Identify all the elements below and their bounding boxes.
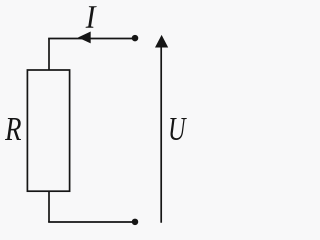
label U (voltage): [170, 118, 187, 140]
wire: top horizontal rail to positive terminal node: [48, 38, 135, 40]
wire: bottom horizontal rail to negative terminal node: [48, 221, 135, 223]
label I (current): [86, 6, 97, 28]
current arrow I (arrowhead pointing left along top rail): [78, 32, 91, 44]
node: bottom terminal dot: [132, 219, 139, 226]
wire: vertical lead from resistor R top to top rail: [48, 39, 50, 71]
wire: vertical lead from resistor R bottom to bottom rail: [48, 191, 50, 222]
resistor R (rectangular body): [27, 70, 69, 191]
voltage arrow U: arrowhead pointing up: [155, 35, 168, 48]
voltage arrow U: shaft: [160, 47, 162, 223]
label R (resistance): [5, 118, 21, 140]
node: top terminal dot: [132, 35, 139, 42]
